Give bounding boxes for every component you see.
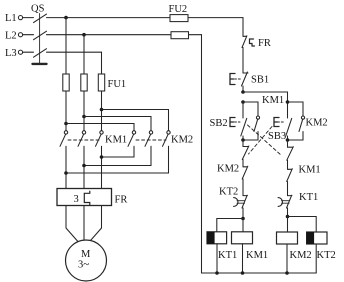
FR thermal symbol bbox=[250, 39, 255, 46]
wire FR to motor B bbox=[83, 206, 85, 241]
node L2 terminal bbox=[18, 33, 22, 37]
wire to right branch bbox=[243, 92, 288, 118]
wire phase A down bbox=[65, 18, 67, 74]
fuse FU2 bottom bbox=[171, 32, 189, 39]
node right coil tap bbox=[286, 215, 290, 219]
svg-text:SB1: SB1 bbox=[251, 75, 269, 86]
wire FR to motor C bbox=[91, 206, 102, 241]
wire phase B down bbox=[83, 35, 85, 74]
switch QS pole 3 bbox=[23, 49, 102, 58]
node L1 terminal bbox=[18, 16, 22, 20]
contactor KM1 main contact 1 bbox=[60, 131, 68, 189]
node left coil tap bbox=[241, 217, 245, 221]
wire FU2a to control feed bbox=[188, 17, 243, 19]
svg-text:KM1: KM1 bbox=[105, 135, 127, 146]
svg-text:FR: FR bbox=[258, 38, 271, 49]
node KM2 hold tap bbox=[286, 100, 290, 104]
wire KM1 to rail bbox=[242, 244, 244, 273]
wire KM1 hold branch bbox=[243, 102, 258, 116]
thermal relay FR box bbox=[57, 189, 112, 206]
wire left coil bar bbox=[217, 219, 243, 232]
node SB2 rejoin bbox=[241, 138, 245, 142]
coil KT2 bbox=[307, 232, 327, 244]
wire FU2b to return riser bbox=[189, 34, 202, 36]
svg-text:KT1: KT1 bbox=[299, 192, 318, 203]
wire phase C below fuse bbox=[101, 91, 103, 131]
wire bottom rail bbox=[202, 272, 317, 274]
svg-text:L2: L2 bbox=[5, 30, 17, 41]
svg-text:KM2: KM2 bbox=[306, 118, 328, 129]
fuse FU2 top bbox=[170, 15, 188, 22]
svg-text:3~: 3~ bbox=[78, 259, 89, 271]
svg-text:KT2: KT2 bbox=[317, 250, 336, 261]
wire L2 to fuse FU2b bbox=[84, 34, 171, 36]
wire right coil bar bbox=[288, 217, 317, 233]
KM1 mechanical link bbox=[68, 139, 100, 141]
contact KM2 interlock NC bbox=[242, 166, 248, 195]
motor M bbox=[66, 240, 107, 281]
node rail KM1 bbox=[241, 271, 245, 275]
fuse FU1 phase A bbox=[63, 74, 69, 91]
coil KM2 bbox=[277, 232, 298, 244]
FR heater element symbol bbox=[84, 191, 90, 204]
svg-text:KM2: KM2 bbox=[290, 250, 312, 261]
wire phase A below fuse bbox=[65, 91, 67, 131]
wire L1 to fuse FU2a bbox=[66, 17, 170, 19]
KM2 mechanical link bbox=[136, 139, 166, 141]
contact KM2 self-hold bbox=[288, 116, 305, 140]
mechanical link SB2 to NC bbox=[248, 125, 282, 156]
wire KM2 hold branch bbox=[288, 102, 304, 116]
fuse FU1 phase B bbox=[81, 74, 87, 91]
node crossover A bbox=[64, 171, 68, 175]
svg-text:FU1: FU1 bbox=[108, 79, 127, 90]
wire branch C to KM2 c3 bbox=[102, 110, 169, 131]
node rail KM2 bbox=[285, 271, 289, 275]
button SB2 contact (NO) bbox=[241, 102, 247, 140]
wire branch B to KM2 c2 bbox=[84, 117, 151, 131]
SB1 actuator bbox=[230, 74, 235, 85]
svg-text:KM2: KM2 bbox=[217, 163, 239, 174]
node after SB1 bbox=[241, 90, 245, 94]
svg-text:KM2: KM2 bbox=[171, 135, 193, 146]
svg-text:QS: QS bbox=[31, 4, 45, 15]
svg-text:SB3: SB3 bbox=[268, 131, 286, 142]
svg-text:L3: L3 bbox=[5, 48, 17, 59]
wire FR to motor A bbox=[66, 206, 78, 242]
contactor KM1 main contact 3 bbox=[96, 131, 104, 189]
SB2 actuator bbox=[230, 118, 235, 127]
wire KT1 to rail bbox=[216, 244, 218, 273]
coil KM1 bbox=[232, 232, 253, 244]
switch QS pole 2 bbox=[23, 31, 84, 40]
node phase C branch bbox=[100, 108, 104, 112]
node L3 terminal bbox=[18, 50, 22, 54]
contact KM1 self-hold bbox=[243, 116, 260, 140]
contactor KM1 main contact 2 bbox=[78, 131, 86, 189]
svg-text:L1: L1 bbox=[5, 13, 17, 24]
contact SB3 NC (left branch) bbox=[242, 140, 249, 167]
svg-text:FR: FR bbox=[115, 195, 128, 206]
wire control feed down bbox=[242, 18, 244, 37]
contact SB2 NC (right branch) bbox=[287, 140, 294, 169]
wire return riser bbox=[201, 35, 203, 273]
node rail KT1 bbox=[215, 271, 219, 275]
node phase A branch bbox=[64, 122, 68, 126]
button SB1 (stop, NC) bbox=[242, 72, 249, 92]
contactor KM2 main contact 3 bbox=[66, 131, 170, 173]
contactor KM2 main contact 2 bbox=[84, 131, 153, 166]
contact KT1 timed NC bbox=[287, 195, 292, 216]
wire phase B below fuse bbox=[83, 91, 85, 131]
contact KT2 timed NC bbox=[242, 195, 247, 218]
node phase B branch bbox=[82, 115, 86, 119]
node SB3 rejoin bbox=[286, 138, 290, 142]
contact KM1 interlock NC bbox=[287, 169, 293, 196]
node crossover B bbox=[82, 164, 86, 168]
node L2 tap bbox=[82, 33, 86, 37]
svg-text:KM1: KM1 bbox=[246, 250, 268, 261]
switch QS pole 1 bbox=[23, 14, 66, 23]
wire KM2 to rail bbox=[286, 244, 288, 273]
button SB3 contact (NO) bbox=[286, 118, 292, 140]
switch QS mechanical link bbox=[39, 14, 41, 64]
svg-text:KT2: KT2 bbox=[219, 187, 238, 198]
FR NC contact bbox=[242, 36, 247, 73]
contactor KM2 main contact 1 bbox=[102, 131, 136, 157]
mechanical link SB3 to NC bbox=[249, 127, 273, 155]
fuse FU1 phase C bbox=[98, 74, 104, 91]
node KM1 hold tap bbox=[241, 100, 245, 104]
svg-text:KM1: KM1 bbox=[299, 165, 321, 176]
svg-text:3: 3 bbox=[74, 194, 79, 205]
SB3 actuator bbox=[274, 118, 279, 127]
svg-text:FU2: FU2 bbox=[169, 4, 188, 15]
svg-text:KT1: KT1 bbox=[218, 250, 237, 261]
coil KT1 bbox=[207, 232, 227, 244]
wire KT2 to rail bbox=[315, 244, 317, 273]
wire phase C down bbox=[101, 52, 103, 74]
node L1 tap bbox=[64, 16, 68, 20]
node crossover C bbox=[100, 155, 104, 159]
svg-text:SB2: SB2 bbox=[210, 118, 228, 129]
svg-text:KM1: KM1 bbox=[262, 95, 284, 106]
wire branch A to KM2 c1 bbox=[66, 124, 134, 131]
